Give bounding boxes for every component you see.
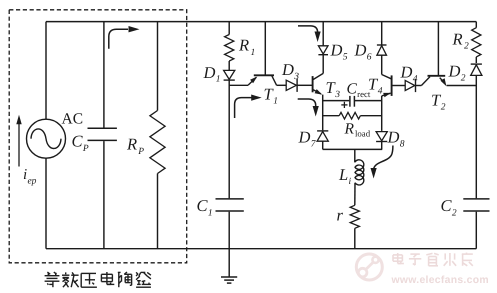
inductor L (354, 149, 356, 162)
wire T2 to D2 branch (447, 85, 477, 87)
transistor T1 (254, 74, 274, 76)
watermark logo (356, 254, 382, 280)
wire: bottom rail (46, 248, 476, 250)
resistor r (350, 205, 359, 228)
wire: D1 node to T1 emitter (229, 84, 248, 86)
diode D7 (317, 132, 328, 142)
wire T1 to D3 (277, 84, 287, 86)
current arrow i_ep (18, 123, 20, 167)
capacitor CP (103, 22, 105, 128)
current arrow near CP (109, 29, 128, 49)
wire: right branch down (475, 75, 477, 198)
capacitor C2 (463, 198, 489, 200)
capacitor C1 (216, 198, 244, 200)
resistor Rload (323, 115, 340, 117)
svg-text:r: r (337, 206, 344, 225)
diode D2 (471, 65, 482, 76)
transistor T2 (428, 75, 446, 77)
capacitor Crect (323, 100, 350, 102)
wire: T3 emitter node down (322, 95, 324, 131)
diode D8 (376, 132, 387, 141)
transistor T3 (312, 76, 314, 92)
wire: top rail (46, 21, 476, 23)
current arrow near D8 (374, 146, 393, 171)
dashed box: equivalent piezoelectric ceramic (9, 10, 187, 263)
diode D5 (322, 22, 324, 46)
wire T4 base to D4 (392, 85, 406, 87)
resistor R1 (228, 22, 230, 35)
svg-text:AC: AC (62, 111, 84, 128)
current arrow below T3 (298, 99, 316, 108)
resistor R2 (475, 22, 477, 28)
transistor T4 (391, 75, 393, 96)
ground (228, 249, 230, 277)
diode D6 (381, 22, 383, 45)
AC source (27, 119, 66, 158)
resistor RP (157, 22, 159, 111)
current arrow near T1 (235, 98, 252, 118)
wire: left branch (AC source) (45, 22, 47, 120)
watermark text 电子发烧友 (397, 253, 399, 264)
current arrow above D5 (298, 26, 318, 34)
wire D1 to C1 (228, 80, 230, 198)
wire D3 to T3 base (297, 84, 312, 86)
wire: rectifier bottom (323, 148, 383, 150)
diode D3 (286, 80, 296, 90)
svg-text:www.elecfans.com: www.elecfans.com (391, 275, 489, 286)
diode D4 (405, 80, 415, 90)
wire: T4 emitter node down (381, 96, 383, 131)
plus sign (341, 104, 347, 106)
diode D1 (224, 70, 235, 79)
caption 等效压电陶瓷 (45, 275, 60, 277)
